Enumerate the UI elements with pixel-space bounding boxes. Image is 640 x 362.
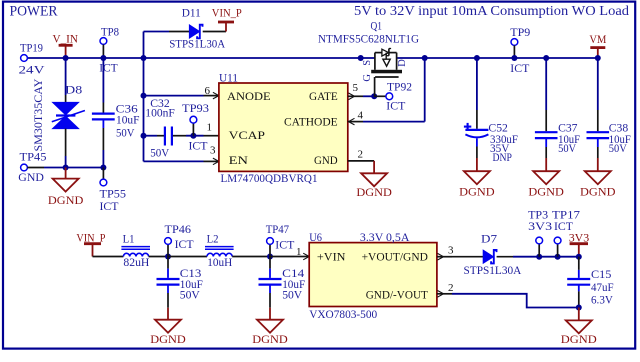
test point TP47 bbox=[269, 244, 271, 256]
svg-text:DGND: DGND bbox=[356, 185, 392, 199]
svg-text:82uH: 82uH bbox=[123, 255, 149, 269]
svg-text:ICT: ICT bbox=[189, 138, 209, 152]
svg-text:EN: EN bbox=[229, 153, 249, 167]
svg-text:VIN_P: VIN_P bbox=[212, 6, 242, 20]
junction TP93 bbox=[190, 133, 196, 139]
junction TP47 / C14 bbox=[267, 254, 273, 260]
svg-text:5: 5 bbox=[353, 82, 359, 94]
svg-text:D7: D7 bbox=[481, 231, 497, 245]
svg-text:L2: L2 bbox=[207, 232, 219, 246]
wire CATHODE vertical to rail bbox=[424, 58, 426, 122]
svg-text:POWER: POWER bbox=[10, 3, 58, 19]
ground DGND (C15) bbox=[578, 308, 580, 321]
svg-text:GND/-VOUT: GND/-VOUT bbox=[366, 287, 429, 301]
svg-text:C15: C15 bbox=[591, 267, 611, 281]
wire D11 anode bbox=[144, 31, 170, 33]
svg-text:6: 6 bbox=[205, 85, 211, 97]
capacitor C32 bbox=[164, 127, 166, 146]
svg-text:U6: U6 bbox=[309, 230, 322, 244]
ground DGND (C37) bbox=[545, 158, 547, 171]
wire L2 to TP47 bbox=[232, 256, 270, 258]
svg-text:TP8: TP8 bbox=[101, 25, 119, 39]
op-amp controller U11 LM74700QDBVRQ1 body bbox=[219, 83, 348, 171]
capacitor C13 bbox=[167, 257, 169, 269]
svg-text:1: 1 bbox=[296, 246, 302, 258]
wire U11 pin 6 (ANODE) bbox=[144, 95, 204, 97]
wire C15 to ground node bbox=[578, 286, 580, 292]
svg-text:5V to 32V input 10mA Consumpt: 5V to 32V input 10mA Consumption WO Load bbox=[354, 4, 629, 19]
svg-text:3.3V 0,5A: 3.3V 0,5A bbox=[360, 230, 410, 244]
svg-text:24V: 24V bbox=[19, 63, 45, 77]
wire C37 branch bbox=[545, 58, 547, 110]
ground DGND (D8 branch) bbox=[65, 168, 67, 179]
svg-text:ICT: ICT bbox=[99, 61, 118, 75]
svg-text:10uF: 10uF bbox=[116, 112, 140, 126]
wire TP47 to U6 pin 1 bbox=[270, 256, 295, 258]
svg-text:ICT: ICT bbox=[175, 237, 195, 251]
wire U11 pin 2 (GND) bbox=[348, 160, 374, 162]
svg-text:STPS1L30A: STPS1L30A bbox=[169, 37, 225, 51]
Q1 channel bar bbox=[371, 70, 402, 74]
svg-text:SM30T35CAY: SM30T35CAY bbox=[31, 78, 45, 151]
capacitor C37 bbox=[535, 131, 558, 133]
svg-text:DNP: DNP bbox=[493, 150, 513, 164]
junction TP46 / C13 bbox=[165, 254, 171, 260]
wire U11 pin 1 (VCAP) stub bbox=[204, 135, 219, 137]
wire U11 pin 5 (GATE) bbox=[348, 95, 363, 97]
wire D11 cathode to VIN_P bbox=[203, 31, 226, 33]
wire C36 to GND rail bbox=[102, 120, 104, 128]
svg-text:TP45: TP45 bbox=[20, 150, 47, 164]
svg-text:TP92: TP92 bbox=[387, 80, 412, 94]
test point TP55 bbox=[102, 168, 104, 180]
svg-text:50V: 50V bbox=[609, 141, 627, 155]
svg-text:ICT: ICT bbox=[510, 61, 530, 75]
wire C38 to ground bbox=[597, 139, 599, 147]
svg-text:DGND: DGND bbox=[150, 332, 186, 346]
svg-text:CATHODE: CATHODE bbox=[284, 114, 338, 128]
wire C14 to ground bbox=[269, 286, 271, 294]
svg-text:V_IN: V_IN bbox=[53, 31, 79, 45]
junction VM / C38 / rail bbox=[595, 55, 601, 61]
svg-text:50V: 50V bbox=[116, 126, 135, 140]
svg-text:ICT: ICT bbox=[386, 99, 406, 113]
svg-text:3V3: 3V3 bbox=[528, 219, 552, 233]
svg-text:50V: 50V bbox=[150, 146, 169, 160]
wire C37 to ground bbox=[545, 139, 547, 147]
svg-text:DGND: DGND bbox=[528, 184, 564, 198]
svg-text:DGND: DGND bbox=[561, 332, 597, 346]
test point TP45 bbox=[21, 164, 28, 171]
junction TP17 bbox=[555, 254, 561, 260]
test point TP19 bbox=[21, 55, 28, 62]
wire D8 to GND rail bbox=[65, 129, 67, 156]
svg-text:L1: L1 bbox=[123, 232, 135, 246]
junction V_IN / D8 bbox=[63, 55, 69, 61]
wire D8 branch bbox=[65, 58, 67, 95]
wire TP46 to L2 bbox=[168, 256, 207, 258]
junction Q1 source on rail bbox=[358, 55, 364, 61]
wire VIN_P to L1 bbox=[93, 256, 124, 258]
svg-text:ICT: ICT bbox=[275, 238, 295, 252]
test point TP46 bbox=[167, 244, 169, 256]
svg-text:ICT: ICT bbox=[100, 199, 120, 213]
wire U6 pin 3 (+VOUT) bbox=[437, 256, 452, 258]
junction CATHODE / main rail bbox=[422, 55, 428, 61]
svg-text:D: D bbox=[397, 59, 408, 67]
svg-text:S: S bbox=[362, 60, 373, 66]
svg-text:100nF: 100nF bbox=[145, 106, 175, 120]
svg-text:4: 4 bbox=[358, 110, 364, 122]
wire C36 branch bbox=[102, 58, 104, 103]
svg-text:TP9: TP9 bbox=[510, 25, 530, 39]
svg-text:50V: 50V bbox=[180, 288, 200, 302]
capacitor C36 bbox=[92, 112, 115, 114]
wire VCAP net to C32 bbox=[144, 135, 158, 137]
test point TP93 bbox=[192, 123, 194, 136]
svg-text:Q1: Q1 bbox=[371, 19, 383, 33]
test point TP8 bbox=[100, 38, 107, 45]
ground DGND (C13) bbox=[167, 308, 169, 320]
capacitor C14 bbox=[269, 257, 271, 269]
svg-text:6.3V: 6.3V bbox=[591, 293, 613, 307]
svg-text:GATE: GATE bbox=[309, 89, 338, 103]
wire U11 pin 3 (EN) bbox=[144, 160, 204, 162]
diode D7 bbox=[483, 250, 493, 263]
wire C52 branch bbox=[476, 58, 478, 110]
ground DGND (C14) bbox=[269, 308, 271, 320]
TVS diode D8 bbox=[53, 102, 79, 114]
Q1 body diode bbox=[382, 49, 389, 56]
svg-text:TP93: TP93 bbox=[182, 101, 209, 115]
capacitor C15 bbox=[578, 257, 580, 270]
wire D7 cathode to 3V3 bbox=[497, 256, 513, 258]
junction VCAP branch bbox=[141, 133, 147, 139]
junction TP8 / C36 bbox=[100, 55, 106, 61]
svg-text:U11: U11 bbox=[219, 71, 238, 85]
junction C52 / rail bbox=[474, 55, 480, 61]
junction D11 branch on main rail bbox=[141, 55, 147, 61]
test point TP9 bbox=[511, 39, 518, 46]
svg-text:50V: 50V bbox=[282, 288, 302, 302]
wire D11 branch vertical bbox=[143, 32, 145, 59]
inductor L2 bbox=[205, 246, 234, 248]
junction 3V3 / C15 bbox=[576, 254, 582, 260]
svg-text:TP47: TP47 bbox=[266, 222, 289, 236]
wire C52 to ground bbox=[476, 138, 478, 146]
Q1 gate plate bbox=[375, 76, 399, 78]
svg-text:STPS1L30A: STPS1L30A bbox=[464, 263, 522, 277]
wire C13 to ground bbox=[167, 286, 169, 294]
svg-text:+VOUT/GND: +VOUT/GND bbox=[362, 249, 429, 263]
junction C37 / rail bbox=[543, 55, 549, 61]
svg-text:3: 3 bbox=[210, 145, 216, 157]
plus sign C52 bbox=[464, 126, 471, 128]
svg-text:LM74700QDBVRQ1: LM74700QDBVRQ1 bbox=[221, 171, 318, 185]
wire C32 to VCAP pin bbox=[173, 135, 186, 137]
junction gate net bbox=[371, 93, 377, 99]
svg-text:10uH: 10uH bbox=[207, 255, 232, 269]
svg-text:DGND: DGND bbox=[252, 332, 288, 346]
svg-text:ANODE: ANODE bbox=[227, 89, 271, 103]
svg-text:DGND: DGND bbox=[48, 193, 84, 207]
svg-text:VCAP: VCAP bbox=[229, 128, 266, 142]
svg-text:D11: D11 bbox=[182, 6, 201, 20]
wire U6 pin 2 (GND/-VOUT) return bbox=[437, 293, 452, 295]
diode D11 bbox=[189, 25, 199, 38]
svg-text:1: 1 bbox=[207, 122, 213, 134]
test point TP17 bbox=[557, 244, 559, 257]
svg-text:DGND: DGND bbox=[459, 184, 495, 198]
svg-text:2: 2 bbox=[358, 149, 364, 161]
inductor L1 bbox=[121, 246, 150, 248]
svg-text:50V: 50V bbox=[558, 141, 576, 155]
svg-text:NTMFS5C628NLT1G: NTMFS5C628NLT1G bbox=[318, 32, 419, 46]
junction TP3 bbox=[536, 254, 542, 260]
wire main rail right of Q1 bbox=[397, 57, 597, 59]
junction C15 / -VOUT return bbox=[576, 305, 582, 311]
svg-text:VM: VM bbox=[589, 32, 606, 46]
junction TP9 / rail bbox=[511, 55, 517, 61]
svg-text:GND: GND bbox=[18, 170, 44, 184]
svg-text:TP19: TP19 bbox=[20, 41, 43, 55]
test point TP3 bbox=[538, 244, 540, 257]
regulator U6 VXO7803-500 body bbox=[309, 243, 437, 307]
svg-text:+VIN: +VIN bbox=[317, 249, 346, 263]
junction pin6 branch bbox=[141, 93, 147, 99]
wire main +24V rail (TP19 to VM) bbox=[27, 57, 375, 59]
ground DGND (C38) bbox=[597, 158, 599, 171]
svg-text:D8: D8 bbox=[65, 83, 82, 97]
Q1 gate arrow bbox=[385, 53, 387, 60]
wire L1 to TP46 bbox=[149, 256, 168, 258]
capacitor C38 bbox=[587, 131, 610, 133]
test point TP92 bbox=[374, 95, 386, 97]
ground DGND (U11 pin2) bbox=[373, 161, 375, 173]
svg-text:VXO7803-500: VXO7803-500 bbox=[309, 307, 377, 321]
svg-text:2: 2 bbox=[448, 282, 454, 294]
transistor Q1 body bbox=[374, 53, 376, 70]
ground DGND (C52) bbox=[476, 158, 478, 171]
wire U11 pin 4 (CATHODE) bbox=[348, 121, 363, 123]
wire gate to Q1 bbox=[374, 77, 376, 96]
svg-text:3: 3 bbox=[448, 245, 454, 257]
wire C38 branch bbox=[597, 58, 599, 110]
wire GND rail bbox=[27, 167, 44, 169]
svg-text:DGND: DGND bbox=[580, 184, 616, 198]
junction D8 / GND rail bbox=[63, 165, 69, 171]
svg-text:GND: GND bbox=[314, 153, 338, 167]
wire U11 left feed vertical bbox=[143, 58, 145, 161]
svg-text:G: G bbox=[362, 74, 373, 82]
svg-text:TP46: TP46 bbox=[165, 222, 192, 236]
junction C36 / TP55 / GND rail bbox=[100, 165, 106, 171]
capacitor C52 (polarized) bbox=[465, 129, 488, 131]
